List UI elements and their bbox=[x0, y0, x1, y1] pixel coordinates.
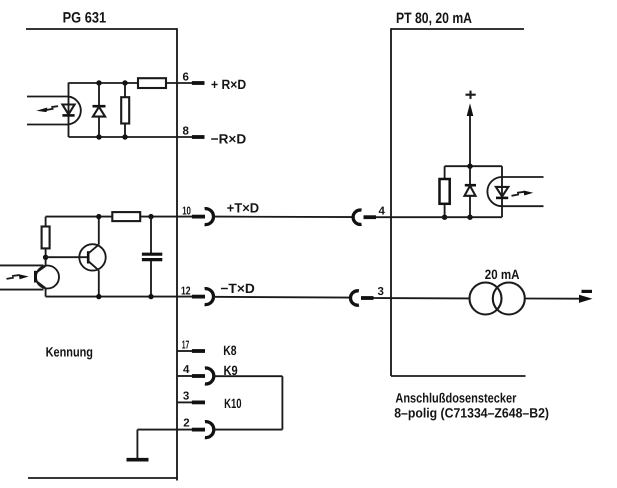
optocoupler U1 light arrow (pointing left) bbox=[36, 106, 58, 112]
svg-text:Anschlußdosenstecker: Anschlußdosenstecker bbox=[395, 391, 517, 406]
phototransistor U2 light arrow (pointing right) bbox=[7, 274, 29, 279]
junction node top of resistor R1 bbox=[122, 80, 127, 85]
wire pin3 to current source bbox=[374, 297, 470, 299]
current source G1 right circle bbox=[493, 283, 525, 315]
wire pin4 to PT subcircuit bbox=[376, 216, 502, 218]
wire: TxD+ top rail (pin 10) bbox=[46, 216, 113, 218]
pin 4 connector socket arc (PT side) bbox=[353, 210, 361, 224]
minus polarity bar bbox=[582, 290, 593, 293]
junction node supply/top rail bbox=[467, 164, 472, 169]
pin 3 tick (K10) bbox=[192, 400, 205, 404]
junction node bottom of diode V1 bbox=[96, 134, 101, 139]
svg-text:6: 6 bbox=[183, 72, 189, 84]
optocoupler U1 body arc bbox=[69, 97, 81, 125]
pin 2 tick bbox=[192, 428, 205, 432]
svg-text:4: 4 bbox=[379, 205, 386, 217]
optocoupler U3 detector-side leads bbox=[502, 176, 544, 178]
transistor Q1 body circle bbox=[79, 244, 105, 270]
wire pin 2 left segment bbox=[137, 429, 192, 431]
svg-text:20 mA: 20 mA bbox=[485, 267, 520, 282]
pin 12 connector socket arc bbox=[205, 289, 214, 305]
plus supply symbol bbox=[466, 91, 476, 99]
svg-text:K8: K8 bbox=[223, 343, 237, 358]
resistor R5 (vertical in PT) bbox=[440, 166, 450, 217]
current source G1 left circle bbox=[470, 283, 502, 315]
optocoupler U1 LED cathode bar bbox=[62, 114, 74, 117]
PG 631 enclosure bottom edge bbox=[28, 477, 178, 479]
ground riser bbox=[136, 430, 138, 460]
PG 631 enclosure right edge (pin bus) bbox=[176, 28, 178, 480]
wire pin10 to pin4 bbox=[213, 216, 353, 219]
transistor Q1 base bar bbox=[87, 251, 90, 263]
pin 8 tick bbox=[192, 135, 205, 139]
PT subcircuit top rail bbox=[445, 165, 502, 167]
output arrowhead bbox=[579, 295, 593, 303]
wire pin 4 stub (K9) bbox=[177, 375, 192, 377]
transistor Q1 emitter bbox=[88, 261, 99, 297]
PT 80 enclosure top edge bbox=[391, 28, 524, 30]
phototransistor U2 base bar bbox=[34, 271, 37, 283]
junction node top of diode V1 bbox=[96, 80, 101, 85]
svg-text:3: 3 bbox=[378, 286, 384, 298]
svg-text:8–polig (C71334–Z648–B2): 8–polig (C71334–Z648–B2) bbox=[394, 406, 549, 421]
pin 17 tick bbox=[192, 349, 205, 353]
svg-text:3: 3 bbox=[183, 390, 189, 402]
wire: RxD bottom rail (pin 8) bbox=[69, 136, 193, 138]
wire: TxD- bottom rail (pin 12) bbox=[46, 296, 192, 298]
optocoupler U1 LED triangle bbox=[62, 105, 74, 115]
resistor R3 (horizontal on TxD+ rail) bbox=[112, 212, 140, 221]
diode V2 (vertical, cathode up) bbox=[465, 166, 477, 217]
junction node base bbox=[43, 255, 48, 260]
phototransistor U2 body circle bbox=[36, 266, 59, 289]
wire base to transistor Q1 bbox=[46, 256, 89, 258]
wire K9 loop right edge bbox=[281, 376, 283, 429]
pin 3 connector socket arc (PT side) bbox=[351, 291, 359, 305]
svg-text:−T×D: −T×D bbox=[220, 281, 255, 296]
optocoupler U3 light arrow (pointing right) bbox=[512, 191, 534, 196]
junction node cap/top rail bbox=[148, 214, 153, 219]
wire pin 3 stub (K10) bbox=[177, 401, 192, 403]
svg-text:10: 10 bbox=[182, 205, 191, 217]
svg-text:12: 12 bbox=[181, 285, 191, 297]
ground bar bbox=[127, 458, 149, 462]
pin 12 tick bbox=[192, 295, 205, 299]
transistor Q1 collector bbox=[88, 217, 99, 254]
pin 4 tick (PT side) bbox=[364, 215, 377, 219]
resistor R4 (vertical, base bias) bbox=[42, 217, 50, 266]
diode V1 (vertical, cathode up) bbox=[93, 83, 106, 137]
svg-text:PT 80, 20 mA: PT 80, 20 mA bbox=[396, 10, 472, 27]
wire K9 loop bottom bbox=[214, 429, 283, 431]
svg-text:+T×D: +T×D bbox=[227, 200, 260, 215]
junction node emitter/bottom rail bbox=[96, 294, 101, 299]
optocoupler U1 LED rail (vertical) bbox=[68, 83, 70, 137]
pin 6 tick bbox=[192, 81, 205, 85]
resistor R1 (vertical) bbox=[121, 83, 129, 137]
svg-text:Kennung: Kennung bbox=[46, 344, 93, 359]
junction node collector/top rail bbox=[96, 214, 101, 219]
optocoupler U3 LED rail (vertical) bbox=[501, 166, 503, 217]
capacitor C1 bbox=[142, 217, 162, 297]
pin 2 connector socket arc bbox=[205, 422, 214, 438]
junction node diode/bottom rail bbox=[467, 215, 472, 220]
pin 10 connector socket arc bbox=[205, 209, 214, 225]
optocoupler U3 LED cathode bar bbox=[496, 197, 508, 200]
PG 631 enclosure top edge bbox=[26, 28, 177, 30]
wire pin 17 stub bbox=[177, 350, 192, 352]
junction node bottom of resistor R1 bbox=[122, 134, 127, 139]
optocoupler U3 body arc bbox=[487, 177, 502, 206]
svg-text:17: 17 bbox=[182, 339, 190, 351]
phototransistor U2 collector/emitter bbox=[35, 266, 45, 296]
phototransistor U2 input leads bbox=[0, 264, 44, 266]
svg-text:−R×D: −R×D bbox=[211, 132, 247, 147]
pin 3 tick (PT side) bbox=[361, 296, 374, 300]
svg-text:+ R×D: + R×D bbox=[211, 77, 246, 92]
pin 4 tick (K9) bbox=[192, 374, 205, 378]
svg-text:4: 4 bbox=[183, 364, 190, 376]
svg-text:PG 631: PG 631 bbox=[63, 9, 107, 26]
PT 80 enclosure left edge bbox=[390, 28, 392, 376]
resistor R2 (horizontal, in series to pin 6) bbox=[138, 78, 166, 88]
junction node cap/bottom rail bbox=[148, 294, 153, 299]
wire K9 loop top bbox=[214, 375, 283, 377]
svg-text:2: 2 bbox=[183, 418, 189, 430]
optocoupler U3 LED triangle bbox=[496, 187, 508, 197]
svg-text:K10: K10 bbox=[224, 396, 242, 411]
supply arrow up bbox=[467, 103, 474, 166]
svg-text:8: 8 bbox=[183, 126, 190, 138]
wire: RxD top rail (pin 6) bbox=[69, 82, 139, 84]
pin 10 tick bbox=[192, 215, 205, 219]
junction node resistor/bottom rail bbox=[442, 215, 447, 220]
wire current source to output bbox=[525, 298, 580, 300]
pin 4 connector socket arc bbox=[205, 368, 214, 384]
wire pin12 to pin3 bbox=[213, 296, 351, 299]
PT 80 enclosure bottom edge bbox=[391, 375, 526, 377]
optocoupler U1 detector-side leads bbox=[27, 96, 69, 98]
